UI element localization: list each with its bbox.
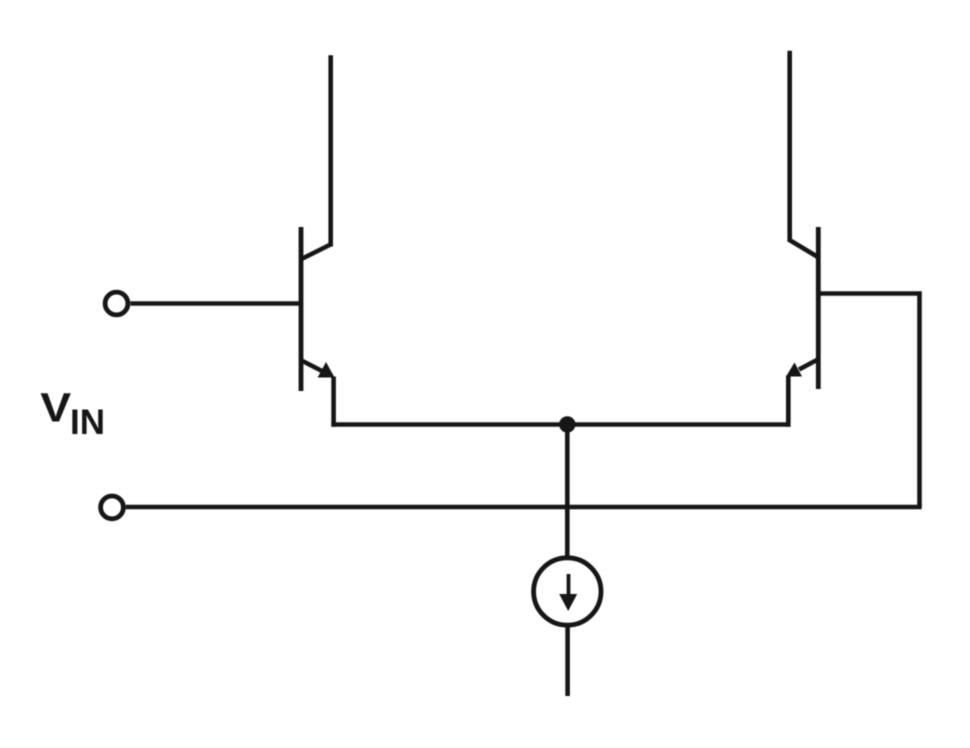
- wire below current source: [565, 625, 570, 696]
- current source I1: [534, 558, 601, 625]
- wire tail to current source: [565, 424, 570, 558]
- svg-text:IN: IN: [70, 403, 105, 442]
- node tail junction: [559, 416, 575, 432]
- wire bottom return: [126, 505, 922, 510]
- wire emitter bus: [331, 422, 790, 427]
- wire emitter Q1: [331, 377, 336, 427]
- wire collector Q2: [787, 51, 792, 242]
- label VIN: [40, 385, 105, 443]
- wire base of Q1: [130, 301, 301, 306]
- transistor Q2: [786, 227, 818, 389]
- wire base of Q2 to right rail: [818, 294, 919, 508]
- node VIN+ terminal: [105, 292, 128, 315]
- node VIN- terminal: [101, 496, 124, 519]
- transistor Q1: [301, 227, 335, 391]
- wire emitter Q2: [786, 376, 791, 427]
- wire collector Q1: [328, 55, 333, 246]
- svg-text:V: V: [40, 385, 71, 431]
